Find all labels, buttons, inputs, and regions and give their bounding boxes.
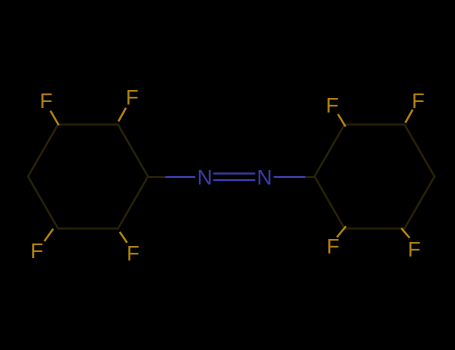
svg-text:F: F bbox=[126, 86, 139, 109]
benzene ring 1 (left, C-C bonds) bbox=[28, 125, 148, 229]
bond C6'-F (right ring bottom-right) bbox=[401, 228, 409, 238]
bond C3-F (left ring top-right) bbox=[118, 108, 126, 122]
benzene ring 2 (right, C-C bonds) bbox=[315, 125, 435, 229]
bond N2-C1' carbon half (dark) bbox=[305, 176, 314, 178]
bond C3'-F (right ring top-right) bbox=[405, 110, 412, 123]
bond C1-N carbon half (dark) bbox=[148, 176, 166, 178]
svg-text:F: F bbox=[127, 242, 140, 265]
svg-text:F: F bbox=[412, 90, 425, 113]
bond C6-F (left ring bottom-right) bbox=[120, 232, 127, 243]
svg-text:N: N bbox=[257, 167, 272, 190]
bond C5'-F (right ring bottom-left) bbox=[337, 226, 346, 237]
bond C1-N (left ring to azo nitrogen) bbox=[166, 176, 196, 178]
svg-text:N: N bbox=[197, 167, 212, 190]
svg-text:F: F bbox=[327, 236, 340, 259]
svg-text:F: F bbox=[408, 239, 421, 262]
svg-text:F: F bbox=[326, 94, 339, 117]
svg-text:F: F bbox=[30, 240, 43, 263]
bond C5-F (left ring bottom-left) bbox=[44, 229, 53, 241]
double bond N1=N2 lower line bbox=[213, 179, 255, 181]
bond C2-F (left ring top-left) bbox=[50, 111, 58, 125]
bond C2'-F (right ring top-left) bbox=[338, 114, 346, 126]
svg-text:F: F bbox=[40, 90, 53, 113]
bond N2-C1' (azo nitrogen to right ring) bbox=[274, 176, 306, 178]
double bond N1=N2 upper line bbox=[213, 173, 255, 175]
